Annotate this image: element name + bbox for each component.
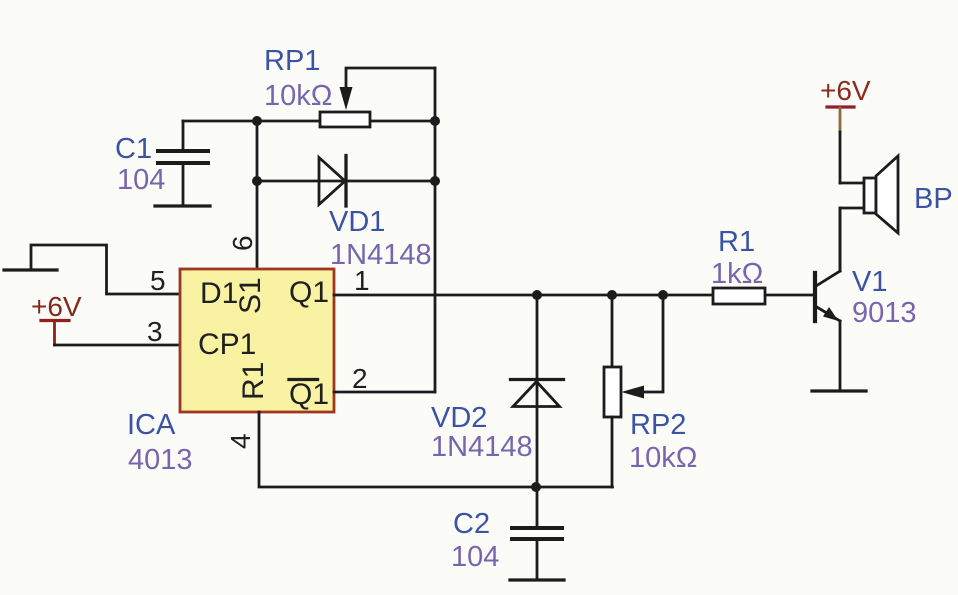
svg-text:10kΩ: 10kΩ (264, 80, 332, 112)
svg-text:10kΩ: 10kΩ (629, 442, 697, 474)
diode VD1 (319, 158, 345, 205)
svg-text:ICA: ICA (127, 409, 176, 441)
potentiometer RP2 (611, 295, 614, 367)
wire right vertical to Q1-bar (434, 68, 437, 392)
svg-text:3: 3 (147, 316, 163, 347)
ground (C2) (510, 578, 564, 581)
svg-text:104: 104 (117, 164, 165, 196)
svg-text:RP1: RP1 (264, 45, 320, 77)
wire RP2 wiper (644, 295, 663, 392)
svg-text:S1: S1 (234, 277, 267, 314)
wire pin 4 to bottom row (259, 412, 613, 487)
wire top node (C1 / RP1 left) (183, 120, 435, 123)
svg-text:4: 4 (225, 433, 256, 449)
RP1 wiper arrow (340, 87, 353, 110)
wire Q1 output row (334, 294, 814, 297)
wire pin 6 vertical (256, 121, 259, 269)
svg-text:D1: D1 (200, 277, 238, 310)
speaker BP (864, 178, 876, 213)
RP2 wiper arrow (622, 386, 645, 399)
junction node RP1 right (430, 116, 440, 126)
svg-text:1N4148: 1N4148 (431, 431, 533, 463)
transistor V1 9013 (813, 273, 817, 321)
svg-text:5: 5 (150, 265, 166, 296)
svg-text:CP1: CP1 (198, 328, 256, 361)
junction node Q1/RP2 top (607, 290, 617, 300)
svg-text:VD1: VD1 (329, 206, 385, 238)
svg-text:R1: R1 (237, 362, 270, 400)
junction node Q1/RP2 wiper (658, 290, 668, 300)
wire Q1-bar pin 2 (334, 391, 435, 394)
svg-text:BP: BP (914, 183, 953, 215)
svg-text:+6V: +6V (31, 291, 82, 322)
open contact terminal plate (4, 268, 57, 271)
svg-text:1N4148: 1N4148 (330, 239, 432, 271)
resistor R1 (713, 288, 765, 304)
svg-text:Q1: Q1 (289, 276, 329, 309)
svg-text:1: 1 (354, 265, 370, 296)
potentiometer RP1 body (320, 112, 370, 127)
ground (V1 emitter) (812, 389, 866, 392)
junction node C1/RP1 (252, 116, 262, 126)
svg-text:R1: R1 (718, 226, 755, 258)
diode VD2 (536, 295, 539, 487)
svg-text:1kΩ: 1kΩ (711, 258, 763, 290)
wire +6V to pin 3 (55, 344, 182, 347)
svg-text:4013: 4013 (128, 444, 193, 476)
svg-text:2: 2 (352, 363, 368, 394)
wire RP1 wiper loop (346, 68, 435, 92)
wire speaker to collector (840, 208, 864, 271)
power +6V left symbol (41, 319, 69, 322)
svg-text:RP2: RP2 (630, 409, 686, 441)
junction node VD1 anode (252, 176, 262, 186)
junction node VD1 cathode (430, 176, 440, 186)
wire contact to pin 5 (31, 245, 181, 294)
svg-text:104: 104 (451, 541, 499, 573)
junction node bottom row / C2 (531, 482, 541, 492)
svg-text:Q1: Q1 (289, 378, 329, 411)
svg-text:C2: C2 (453, 508, 490, 540)
svg-text:V1: V1 (852, 266, 887, 298)
svg-text:VD2: VD2 (431, 402, 487, 434)
junction node Q1/VD2 (532, 290, 542, 300)
svg-text:C1: C1 (115, 133, 152, 165)
capacitor C1 (182, 121, 185, 151)
power +6V right symbol (827, 105, 854, 108)
wire VD1 row (257, 180, 435, 183)
ground (C1) (155, 204, 210, 207)
capacitor C2 (536, 487, 539, 528)
op IC U1 4013 flip-flop box (180, 269, 334, 412)
svg-text:+6V: +6V (820, 75, 871, 106)
svg-text:6: 6 (227, 235, 258, 251)
svg-text:9013: 9013 (852, 297, 917, 329)
wire +6V to speaker (839, 132, 842, 183)
